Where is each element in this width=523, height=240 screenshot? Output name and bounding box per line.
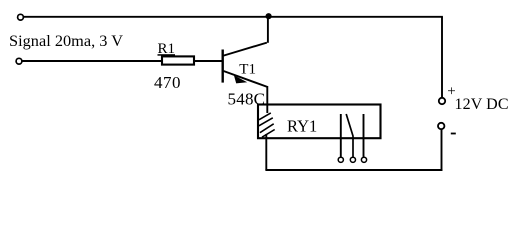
resistor R1 [162, 56, 194, 64]
svg-text:T1: T1 [239, 61, 256, 77]
relay coil hatching [259, 113, 275, 137]
svg-text:R1: R1 [158, 41, 176, 57]
collector diagonal [224, 43, 267, 56]
wire top rail [24, 16, 443, 18]
label minus [451, 133, 456, 135]
transistor T1 [223, 43, 268, 87]
wire emitter to relay coil [266, 86, 268, 113]
wire collector vertical [267, 17, 269, 43]
wire bottom rail [265, 169, 442, 171]
relay contact 2 lever [346, 114, 353, 157]
relay RY1 box [258, 105, 381, 139]
emitter arrowhead [234, 75, 247, 83]
emitter diagonal [224, 71, 268, 87]
relay contact 1 [340, 114, 342, 157]
svg-text:Signal 20ma, 3 V: Signal 20ma, 3 V [9, 31, 123, 50]
svg-text:RY1: RY1 [287, 117, 317, 136]
svg-text:470: 470 [154, 73, 181, 92]
wire right vertical lower [441, 130, 443, 171]
terminal circle lower-left [16, 58, 22, 64]
terminal circle top-left [18, 14, 24, 20]
terminal circle minus [438, 123, 444, 129]
base bar [221, 50, 223, 83]
terminal circle plus [439, 98, 445, 104]
wire base left [22, 60, 162, 62]
node junction dot [266, 13, 272, 19]
wire base right [194, 60, 223, 62]
svg-text:12V DC: 12V DC [455, 96, 509, 113]
wire right vertical upper [441, 17, 443, 98]
contact terminal circles [338, 157, 343, 162]
relay contact 3 [363, 114, 365, 157]
wire coil to bottom rail [265, 134, 267, 170]
